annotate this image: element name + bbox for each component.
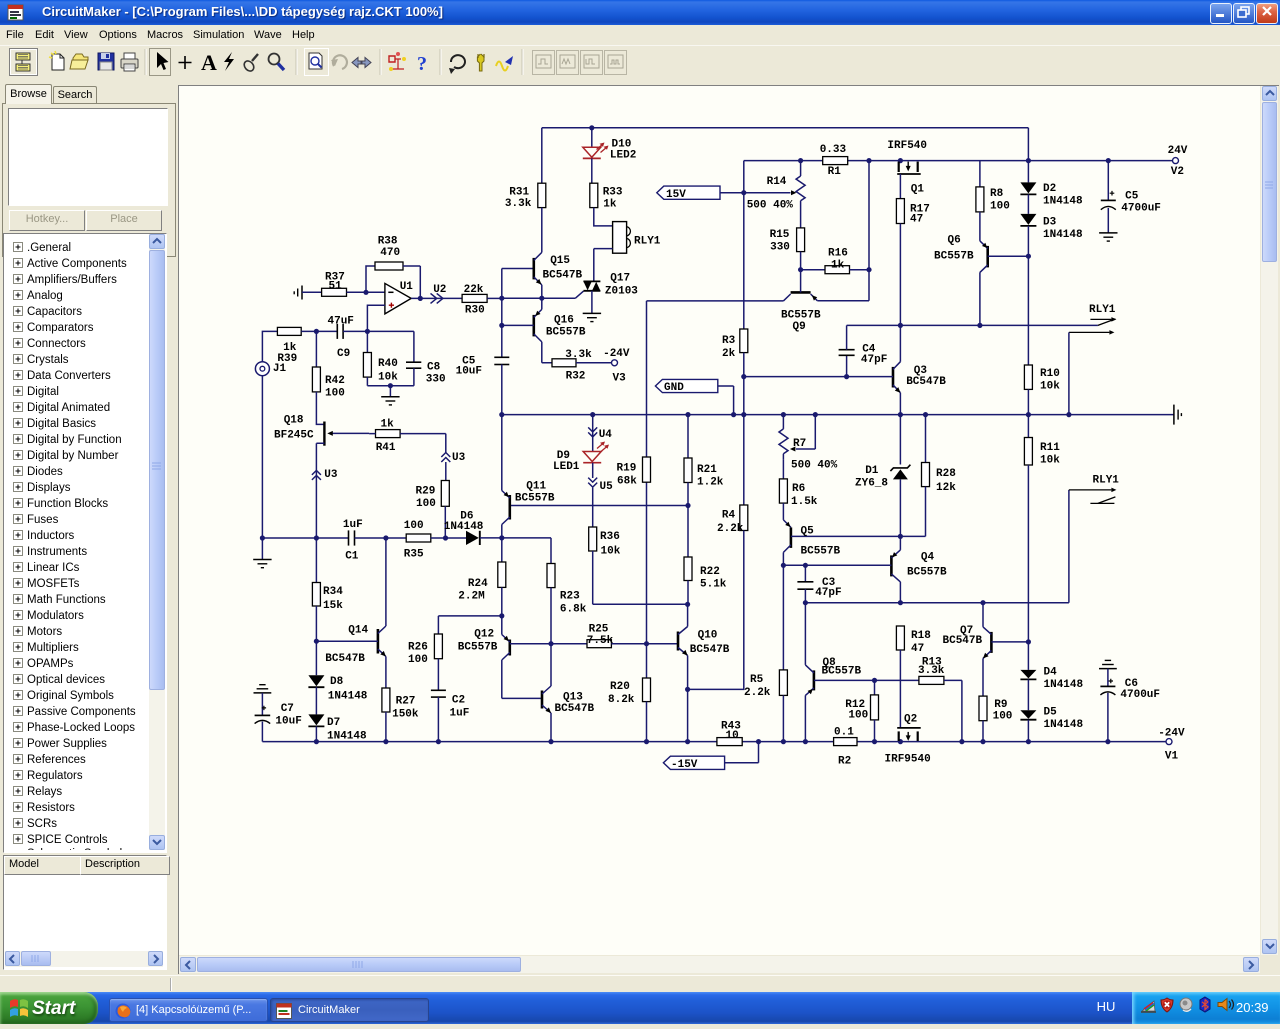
svg-text:Q5: Q5 bbox=[801, 526, 815, 538]
node bus left end junction bbox=[499, 412, 504, 417]
wire R19 R20 column bbox=[646, 301, 648, 644]
wire D7 to bus bbox=[315, 726, 317, 741]
svg-text:Diodes: Diodes bbox=[27, 466, 63, 478]
wire top rail bbox=[542, 127, 1029, 129]
wire input gnd to R37 bbox=[302, 291, 322, 293]
wire R11 to Q7 base bbox=[1027, 465, 1029, 642]
svg-text:100: 100 bbox=[993, 710, 1013, 722]
node Q8 bus junction bbox=[803, 739, 808, 744]
resistor R21 bbox=[687, 415, 689, 458]
node R17 row junction bbox=[898, 323, 903, 328]
transistor Q5 bbox=[782, 503, 784, 520]
svg-text:Comparators: Comparators bbox=[27, 322, 94, 334]
transistor Q10 bbox=[677, 632, 680, 651]
node R27 bus junction bbox=[383, 739, 388, 744]
wire C5 to bus bbox=[501, 365, 503, 415]
ground under J1 column bbox=[261, 538, 263, 560]
capacitor C7 bbox=[261, 693, 263, 715]
svg-text:MOSFETs: MOSFETs bbox=[27, 578, 80, 590]
node Q7 base junction bbox=[1026, 639, 1031, 644]
svg-text:47: 47 bbox=[911, 643, 924, 655]
speaker orange bbox=[1218, 999, 1234, 1011]
wire R21 to Q11 base row bbox=[687, 483, 689, 506]
svg-text:C5: C5 bbox=[1125, 191, 1139, 203]
node R7 wiper bus junction bbox=[813, 412, 818, 417]
svg-text:Q14: Q14 bbox=[348, 625, 368, 637]
resistor R6 bbox=[782, 459, 784, 479]
wire R30 to node bbox=[487, 297, 502, 299]
relay switch RLY1 a bbox=[1098, 319, 1116, 326]
svg-text:R23: R23 bbox=[560, 591, 580, 603]
svg-text:Power Supplies: Power Supplies bbox=[27, 738, 107, 750]
node GND tail junction bbox=[731, 412, 736, 417]
svg-text:2.2M: 2.2M bbox=[458, 590, 485, 602]
resistor R37 bbox=[322, 288, 347, 296]
diode D1 zener bbox=[899, 415, 901, 465]
svg-text:Capacitors: Capacitors bbox=[27, 306, 82, 318]
main vertical scrollbar bbox=[1261, 86, 1278, 955]
wire C1 to R35 bbox=[355, 537, 407, 539]
svg-text:ZY6_8: ZY6_8 bbox=[855, 478, 888, 490]
node R30 output junction bbox=[499, 296, 504, 301]
svg-text:Q17: Q17 bbox=[610, 272, 630, 284]
svg-text:4700uF: 4700uF bbox=[1120, 689, 1160, 701]
svg-text:Q10: Q10 bbox=[698, 630, 718, 642]
transistor Q3 bbox=[892, 367, 895, 388]
wire Q18 source bbox=[316, 443, 324, 538]
svg-text:BC557B: BC557B bbox=[822, 665, 862, 677]
node +input junction bbox=[365, 329, 370, 334]
svg-text:1uF: 1uF bbox=[450, 708, 470, 720]
node R19 R20 junction bbox=[644, 641, 649, 646]
svg-text:R24: R24 bbox=[468, 578, 488, 590]
node D7 bus junction bbox=[314, 739, 319, 744]
wire node to C8 top bbox=[367, 331, 414, 362]
svg-text:3.3k: 3.3k bbox=[505, 198, 532, 210]
node Q11 base right junction bbox=[685, 503, 690, 508]
left panel bbox=[0, 78, 178, 975]
svg-text:SPICE Controls: SPICE Controls bbox=[27, 834, 108, 846]
wire D2 to D3 bbox=[1027, 194, 1029, 214]
svg-text:10uF: 10uF bbox=[275, 716, 301, 728]
transistor Q9 bbox=[791, 291, 811, 294]
svg-text:1N4148: 1N4148 bbox=[1043, 229, 1083, 241]
transistor Q15 bbox=[532, 258, 535, 280]
capacitor C9 bbox=[336, 324, 338, 339]
svg-text:IRF540: IRF540 bbox=[887, 140, 927, 152]
svg-text:R31: R31 bbox=[509, 186, 529, 198]
tree box bbox=[3, 233, 167, 853]
svg-text:R18: R18 bbox=[911, 630, 931, 642]
wire relay2 riser bbox=[1068, 490, 1070, 603]
svg-text:R10: R10 bbox=[1040, 368, 1060, 380]
wire to Q10 base bbox=[647, 643, 679, 645]
svg-text:7.5k: 7.5k bbox=[587, 635, 614, 647]
resistor R41 bbox=[376, 430, 401, 438]
wire R10 to bus bbox=[1027, 389, 1029, 414]
red shield bbox=[1161, 998, 1173, 1012]
svg-text:Q12: Q12 bbox=[474, 629, 494, 641]
wire C3 row bbox=[805, 602, 1069, 604]
svg-text:V2: V2 bbox=[1171, 166, 1184, 178]
node Q2 bus junction bbox=[898, 739, 903, 744]
svg-text:Linear ICs: Linear ICs bbox=[27, 562, 80, 574]
transistor Q12 bbox=[508, 640, 511, 656]
resistor R29 bbox=[445, 462, 447, 481]
svg-text:R11: R11 bbox=[1040, 442, 1060, 454]
resistor R31 bbox=[541, 128, 543, 183]
wire Q8 base row bbox=[814, 679, 919, 681]
resistor R35 bbox=[406, 534, 431, 542]
node R9 bus junction bbox=[980, 739, 985, 744]
svg-text:U3: U3 bbox=[324, 469, 338, 481]
svg-text:R41: R41 bbox=[376, 442, 396, 454]
diode D4 bbox=[1027, 642, 1029, 670]
svg-text:1k: 1k bbox=[603, 198, 617, 210]
resistor R10 bbox=[1024, 365, 1032, 389]
svg-text:1N4148: 1N4148 bbox=[328, 691, 368, 703]
svg-text:BF245C: BF245C bbox=[274, 430, 314, 442]
svg-text:100: 100 bbox=[408, 654, 428, 666]
volume grey bbox=[1180, 998, 1192, 1011]
node Q15 emitter junction bbox=[539, 296, 544, 301]
svg-text:IRF9540: IRF9540 bbox=[885, 754, 931, 766]
wire U5 to R36 bbox=[592, 488, 594, 527]
resistor R12 bbox=[874, 680, 876, 695]
svg-text:C9: C9 bbox=[337, 348, 350, 360]
svg-text:U2: U2 bbox=[433, 284, 446, 296]
svg-text:Q1: Q1 bbox=[911, 184, 925, 196]
transistor Q4 bbox=[899, 536, 901, 550]
resistor R16 bbox=[801, 269, 825, 271]
LED D9 bbox=[583, 452, 601, 462]
ground symbol above C7 bbox=[259, 684, 265, 686]
svg-text:Q2: Q2 bbox=[904, 714, 917, 726]
wire switch to bus bbox=[1068, 332, 1070, 414]
svg-text:C8: C8 bbox=[427, 362, 441, 374]
taskbar bbox=[0, 992, 1280, 1024]
svg-text:Active Components: Active Components bbox=[27, 258, 127, 270]
svg-text:R38: R38 bbox=[378, 236, 398, 248]
svg-text:Q4: Q4 bbox=[921, 552, 935, 564]
svg-text:RLY1: RLY1 bbox=[634, 235, 661, 247]
node R7 bus junction bbox=[781, 412, 786, 417]
node C3 top junction bbox=[803, 563, 808, 568]
wire R32 to terminal V3 bbox=[576, 362, 612, 364]
transistor Q18 bbox=[323, 422, 325, 446]
svg-text:R29: R29 bbox=[416, 486, 436, 498]
resistor R30 bbox=[462, 294, 487, 302]
svg-text:R30: R30 bbox=[465, 305, 485, 317]
svg-text:Start: Start bbox=[32, 998, 76, 1019]
ground flag GND bbox=[655, 379, 717, 392]
svg-text:BC557B: BC557B bbox=[907, 567, 947, 579]
svg-text:500 40%: 500 40% bbox=[747, 200, 794, 212]
svg-text:R6: R6 bbox=[792, 483, 805, 495]
wire R20 to bus bbox=[646, 702, 648, 742]
svg-text:100: 100 bbox=[325, 388, 345, 400]
svg-text:10k: 10k bbox=[378, 372, 398, 384]
tree scrollbar bbox=[149, 234, 165, 850]
svg-text:Original Symbols: Original Symbols bbox=[27, 690, 114, 702]
node Q10 emitter junction bbox=[685, 687, 690, 692]
svg-text:12k: 12k bbox=[936, 482, 956, 494]
ground symbol above C6 bbox=[1105, 659, 1111, 661]
svg-text:47: 47 bbox=[910, 214, 923, 226]
power flag -15V bbox=[663, 756, 724, 769]
svg-text:-24V: -24V bbox=[1158, 727, 1185, 739]
wire -24V bus bbox=[262, 741, 1166, 743]
svg-text:470: 470 bbox=[380, 247, 400, 259]
svg-text:R20: R20 bbox=[610, 681, 630, 693]
wire Q10 emitter to bus bbox=[687, 689, 689, 741]
wire R34 to Q14 base node bbox=[315, 606, 317, 641]
svg-text:2.2k: 2.2k bbox=[744, 687, 771, 699]
node C6 bus junction bbox=[1105, 739, 1110, 744]
svg-text:Crystals: Crystals bbox=[27, 354, 69, 366]
svg-text:R36: R36 bbox=[600, 531, 620, 543]
node R1 right junction bbox=[866, 158, 871, 163]
capacitor C5 4700uF bbox=[1107, 161, 1109, 200]
svg-text:Q15: Q15 bbox=[550, 255, 570, 267]
wire D5 to bus bbox=[1027, 720, 1029, 742]
triac Q17 bbox=[583, 280, 600, 282]
transistor Q11 bbox=[508, 495, 511, 520]
svg-text:51: 51 bbox=[329, 281, 343, 293]
svg-text:330: 330 bbox=[426, 374, 446, 386]
svg-text:1uF: 1uF bbox=[343, 519, 363, 531]
svg-text:1k: 1k bbox=[831, 259, 845, 271]
resistor R28 bbox=[925, 415, 927, 463]
wire R16 right column bbox=[817, 161, 869, 301]
svg-text:BC557B: BC557B bbox=[934, 251, 974, 263]
svg-text:500 40%: 500 40% bbox=[791, 459, 838, 471]
wire + input bbox=[367, 305, 385, 331]
bus arrow U5 bbox=[588, 478, 597, 488]
node C4 bottom junction bbox=[844, 374, 849, 379]
svg-text:0.33: 0.33 bbox=[820, 144, 847, 156]
canvas bbox=[179, 86, 1260, 955]
svg-text:5.1k: 5.1k bbox=[700, 579, 727, 591]
node Q14 collector top junction bbox=[383, 535, 388, 540]
wire C1 row left bbox=[262, 376, 348, 538]
svg-text:Passive Components: Passive Components bbox=[27, 706, 136, 718]
node D10 top junction bbox=[589, 125, 594, 130]
wire R27 to bus bbox=[385, 712, 387, 742]
capacitor C8 bbox=[406, 361, 421, 363]
svg-text:U5: U5 bbox=[600, 481, 614, 493]
node Q10 bus junction bbox=[685, 739, 690, 744]
wire C9 to +input node bbox=[343, 330, 367, 332]
svg-text:R28: R28 bbox=[936, 468, 956, 480]
relay switch RLY1 b bbox=[1069, 489, 1112, 491]
node Q12 emitter junction bbox=[499, 613, 504, 618]
start button bbox=[0, 992, 98, 1024]
wire R3 to R4 bbox=[743, 353, 745, 505]
svg-text:100: 100 bbox=[404, 520, 424, 532]
wire R4 to Q10 emitter row bbox=[688, 531, 744, 690]
svg-text:-15V: -15V bbox=[671, 759, 698, 771]
capacitor C2 bbox=[437, 659, 439, 691]
resistor R13 bbox=[919, 676, 944, 684]
svg-text:R4: R4 bbox=[722, 510, 736, 522]
svg-text:RLY1: RLY1 bbox=[1089, 304, 1116, 316]
svg-text:C7: C7 bbox=[281, 703, 294, 715]
node Q14 base junction bbox=[314, 639, 319, 644]
svg-text:Q16: Q16 bbox=[554, 314, 574, 326]
svg-text:R16: R16 bbox=[828, 247, 848, 259]
svg-text:R40: R40 bbox=[378, 358, 398, 370]
svg-text:100: 100 bbox=[416, 498, 436, 510]
svg-text:Z0103: Z0103 bbox=[605, 286, 638, 298]
node R18 top junction bbox=[898, 600, 903, 605]
svg-text:D1: D1 bbox=[865, 465, 879, 477]
wire coil to triac bbox=[594, 249, 613, 282]
white preview box bbox=[8, 108, 168, 206]
main horizontal scrollbar bbox=[179, 956, 1260, 973]
svg-text:R14: R14 bbox=[767, 176, 787, 188]
wire R22 to R36 row bbox=[687, 581, 689, 605]
wire -15V tail bbox=[725, 742, 759, 763]
wire D6 to R23 corner bbox=[480, 538, 551, 564]
capacitor C1 bbox=[348, 530, 350, 545]
resistor R42 bbox=[315, 331, 317, 367]
node Q3 base row junction bbox=[741, 374, 746, 379]
svg-text:6.8k: 6.8k bbox=[560, 603, 587, 615]
svg-text:BC557B: BC557B bbox=[781, 309, 821, 321]
svg-text:1N4148: 1N4148 bbox=[1044, 719, 1084, 731]
node output junction bbox=[418, 296, 423, 301]
svg-text:R1: R1 bbox=[828, 166, 842, 178]
wire R33 to relay coil bbox=[594, 208, 613, 226]
wire Q3 emitter to bus bbox=[899, 393, 901, 415]
svg-text:R21: R21 bbox=[697, 464, 717, 476]
node D6 left junction bbox=[443, 535, 448, 540]
capacitor C3 bbox=[804, 565, 806, 582]
resistor R36 bbox=[589, 527, 597, 551]
svg-text:Regulators: Regulators bbox=[27, 770, 83, 782]
node R20 bus junction bbox=[644, 739, 649, 744]
svg-text:2.2k: 2.2k bbox=[717, 523, 744, 535]
svg-text:Digital by Function: Digital by Function bbox=[27, 434, 122, 446]
svg-text:Q18: Q18 bbox=[284, 415, 304, 427]
svg-text:8.2k: 8.2k bbox=[608, 694, 635, 706]
resistor R33 bbox=[590, 183, 598, 207]
node R21 bus junction bbox=[685, 412, 690, 417]
svg-text:LED1: LED1 bbox=[553, 461, 580, 473]
svg-text:BC547B: BC547B bbox=[943, 635, 983, 647]
node ground junction bbox=[388, 383, 393, 388]
wire D4 to D5 bbox=[1027, 679, 1029, 710]
wire R23 to base row bbox=[550, 588, 552, 644]
node Q12 base junction bbox=[548, 641, 553, 646]
diode D3 bbox=[1020, 214, 1036, 225]
svg-text:R26: R26 bbox=[408, 642, 428, 654]
svg-text:R19: R19 bbox=[617, 463, 637, 475]
resistor R27 bbox=[382, 688, 390, 712]
svg-text:24V: 24V bbox=[1168, 145, 1188, 157]
wire R15 to R16 row bbox=[800, 252, 802, 270]
power flag 15V bbox=[657, 186, 720, 199]
svg-text:1N4148: 1N4148 bbox=[444, 521, 484, 533]
svg-text:R5: R5 bbox=[750, 674, 764, 686]
node R14 top junction bbox=[798, 158, 803, 163]
svg-text:BC557B: BC557B bbox=[546, 327, 586, 339]
svg-text:68k: 68k bbox=[617, 475, 637, 487]
svg-text:RLY1: RLY1 bbox=[1093, 474, 1120, 486]
resistor R1 bbox=[823, 157, 848, 165]
diode D6 bbox=[466, 531, 479, 545]
menu bar bbox=[0, 25, 1280, 45]
svg-text:0.1: 0.1 bbox=[834, 727, 854, 739]
node R24 top junction bbox=[499, 535, 504, 540]
ground under Q17 bbox=[583, 312, 601, 314]
svg-text:Instruments: Instruments bbox=[27, 546, 87, 558]
svg-text:Math Functions: Math Functions bbox=[27, 594, 106, 606]
node D1 bus junction bbox=[898, 412, 903, 417]
wire D2 D3 column top bbox=[1027, 128, 1029, 183]
wire GND flag tail bbox=[718, 386, 734, 415]
node C2 bus junction bbox=[436, 739, 441, 744]
svg-text:Amplifiers/Buffers: Amplifiers/Buffers bbox=[27, 274, 117, 286]
resistor R34 bbox=[315, 538, 317, 583]
wire Q4 base row bbox=[783, 564, 891, 566]
LED D10 bbox=[591, 128, 593, 147]
svg-text:Digital: Digital bbox=[27, 386, 59, 398]
svg-text:LED2: LED2 bbox=[610, 149, 636, 161]
svg-text:BC547B: BC547B bbox=[690, 644, 730, 656]
node bus R3 junction bbox=[741, 412, 746, 417]
HU bbox=[1090, 996, 1122, 1020]
resistor R4 bbox=[740, 505, 748, 531]
node inv input junction bbox=[363, 290, 368, 295]
svg-text:?: ? bbox=[417, 53, 427, 75]
firefox task bbox=[109, 998, 268, 1022]
node R15 R16 junction bbox=[798, 267, 803, 272]
capacitor C6 bbox=[1107, 669, 1109, 686]
node R34 top junction bbox=[314, 535, 319, 540]
wire R35 to D6 bbox=[431, 537, 466, 539]
wire J1 to R39 row bbox=[262, 331, 277, 361]
svg-text:-24V: -24V bbox=[603, 348, 630, 360]
MOSFET Q2 IRF9540 bbox=[897, 727, 921, 729]
resistor R32 bbox=[552, 359, 576, 367]
node R12 top junction bbox=[872, 678, 877, 683]
transistor Q7 bbox=[990, 632, 993, 653]
wire R26 top row bbox=[438, 616, 501, 634]
wire to R10 bbox=[1027, 256, 1029, 365]
svg-text:R8: R8 bbox=[990, 188, 1004, 200]
svg-text:C2: C2 bbox=[452, 695, 465, 707]
node R36 row junction bbox=[685, 602, 690, 607]
svg-text:Inductors: Inductors bbox=[27, 530, 75, 542]
svg-text:.General: .General bbox=[27, 242, 71, 254]
wire Q18 gate bbox=[332, 432, 369, 434]
svg-text:D5: D5 bbox=[1044, 707, 1058, 719]
node 15V junction bbox=[741, 190, 746, 195]
svg-text:Motors: Motors bbox=[27, 626, 62, 638]
node Q7 collector junction bbox=[980, 600, 985, 605]
svg-text:Q11: Q11 bbox=[526, 480, 546, 492]
capacitor C4 bbox=[846, 355, 848, 376]
wire Q9 collector row bbox=[647, 300, 784, 302]
svg-text:BC547B: BC547B bbox=[543, 269, 583, 281]
svg-text:Digital Animated: Digital Animated bbox=[27, 402, 110, 414]
resistor R18 bbox=[896, 626, 904, 650]
svg-text:1.5k: 1.5k bbox=[791, 496, 818, 508]
svg-text:R42: R42 bbox=[325, 375, 345, 387]
wire Q3 collector row bbox=[847, 324, 1098, 326]
